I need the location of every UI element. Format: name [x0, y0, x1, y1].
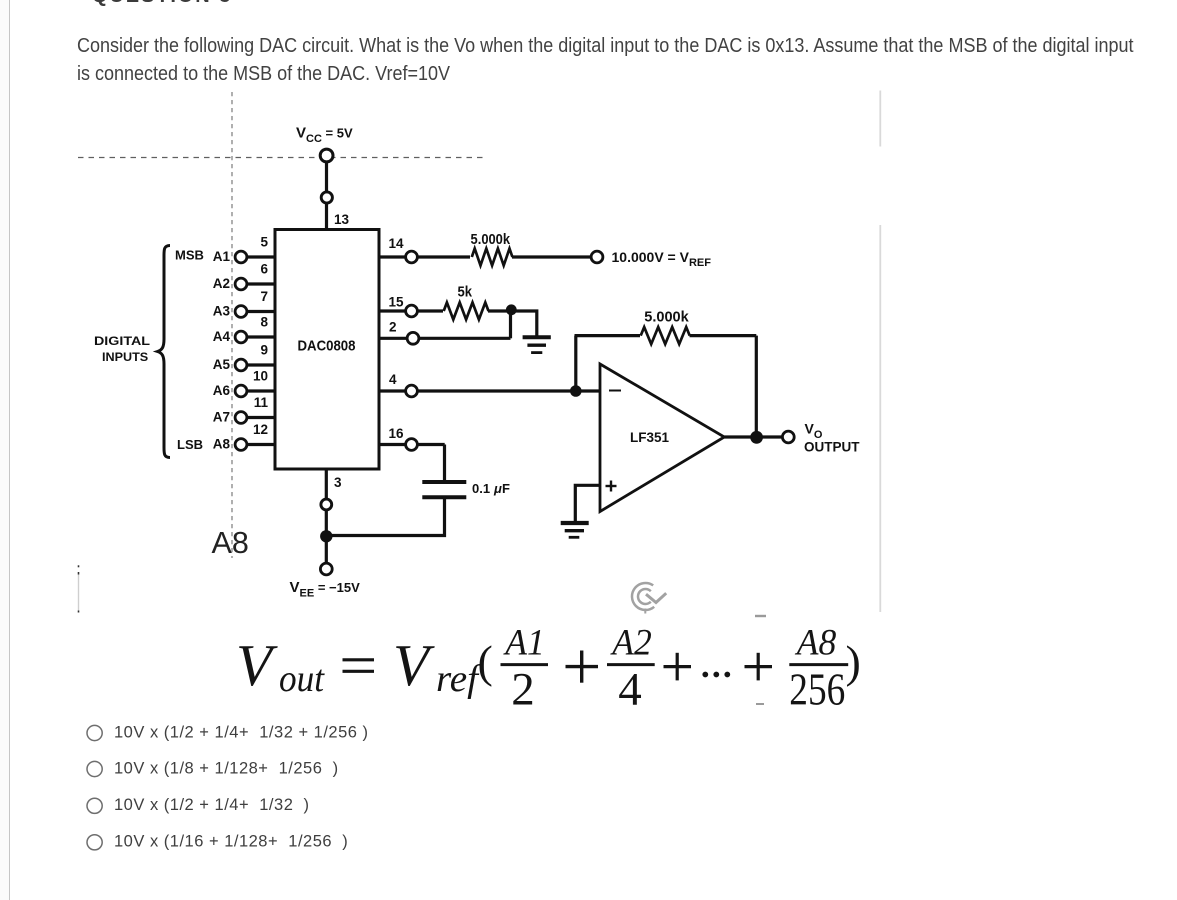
label VO OUTPUT	[804, 421, 860, 455]
pin number 16	[389, 426, 405, 441]
label MSB	[175, 248, 204, 263]
resistor R3 value 5.000k	[644, 310, 689, 326]
formula fraction A8/256	[789, 622, 848, 714]
svg-text:5.000k: 5.000k	[471, 232, 511, 248]
pin 4 row	[379, 385, 600, 397]
formula Vout	[236, 632, 325, 700]
svg-text:A7: A7	[213, 410, 230, 425]
option 4 text	[114, 833, 348, 851]
svg-text:V: V	[236, 632, 278, 698]
right border line lower segment	[879, 225, 881, 612]
feedback wire top right segment	[690, 334, 757, 337]
formula Vref	[393, 632, 483, 700]
svg-text:ref: ref	[436, 658, 483, 700]
label DIGITAL INPUTS	[94, 334, 151, 364]
svg-text:13: 13	[334, 212, 350, 227]
svg-text:LSB: LSB	[177, 437, 203, 452]
refresh icon	[632, 583, 666, 614]
pin number 12	[253, 422, 268, 437]
pin number 3	[334, 475, 342, 490]
formula equals sign	[343, 660, 375, 672]
svg-text:A8: A8	[213, 437, 231, 452]
output wire	[724, 435, 783, 438]
svg-text:A1: A1	[502, 622, 544, 663]
svg-text:VO: VO	[805, 421, 823, 442]
connector circle	[321, 192, 332, 203]
brace for digital inputs	[158, 246, 171, 458]
output terminal circle	[782, 431, 794, 443]
svg-text:9: 9	[260, 343, 268, 358]
label A4	[213, 329, 231, 344]
option 2 text	[114, 759, 339, 777]
svg-text:2: 2	[511, 664, 535, 716]
svg-text:VCC = 5V: VCC = 5V	[296, 125, 353, 146]
pin A6 row	[235, 385, 275, 397]
feedback wire down to output	[755, 336, 758, 437]
formula open paren	[478, 636, 493, 687]
wire to DAC box top	[325, 204, 328, 232]
formula plus 3	[745, 653, 773, 681]
annotation A8	[212, 526, 249, 560]
pin number 6	[260, 262, 268, 277]
svg-text:A8: A8	[212, 526, 249, 560]
resistor R2 5k	[444, 303, 489, 320]
pin number 2	[389, 320, 397, 335]
wire down to VEE junction	[325, 510, 328, 564]
svg-text:MSB: MSB	[175, 248, 204, 263]
pin number 4	[389, 372, 397, 387]
label A5	[213, 357, 231, 372]
wire pin16 down to capacitor	[443, 445, 446, 482]
small gray dash upper	[755, 615, 766, 617]
svg-text:A3: A3	[213, 304, 231, 319]
svg-text:out: out	[279, 658, 325, 700]
op-amp plus sign	[606, 481, 617, 492]
capacitor value 0.1 uF	[472, 481, 510, 496]
svg-text:A2: A2	[213, 276, 230, 291]
svg-text:11: 11	[254, 395, 269, 410]
pin number 11	[254, 395, 269, 410]
svg-text:10V x (1/2 + 1/4+ 1/32 ): 10V x (1/2 + 1/4+ 1/32 )	[114, 796, 310, 814]
formula ellipsis	[702, 672, 730, 678]
ground symbol at op-amp plus input	[561, 523, 589, 537]
svg-text:10V x (1/16 + 1/128+ 1/256 ): 10V x (1/16 + 1/128+ 1/256 )	[114, 833, 348, 851]
label A7	[213, 410, 230, 425]
Vref terminal circle	[591, 251, 603, 263]
svg-text:LF351: LF351	[630, 429, 669, 445]
formula plus 2	[664, 653, 692, 681]
svg-text:5k: 5k	[458, 284, 473, 301]
right border line upper segment	[879, 91, 881, 147]
svg-text:10: 10	[253, 369, 268, 384]
svg-text:10V x (1/8 + 1/128+ 1/256 ): 10V x (1/8 + 1/128+ 1/256 )	[114, 759, 339, 777]
wire VCC down	[325, 163, 328, 192]
pin label 13	[334, 212, 350, 227]
svg-text:15: 15	[389, 295, 405, 310]
svg-text:256: 256	[789, 665, 845, 715]
op-amp label LF351	[630, 429, 669, 445]
non-inverting input wire	[575, 485, 600, 521]
resistor R3 feedback 5.000k	[641, 327, 690, 344]
svg-text:4: 4	[618, 664, 642, 716]
pin A5 row	[235, 359, 275, 371]
label A8	[213, 437, 231, 452]
left page border	[0, 0, 9, 900]
pin A8 row	[235, 439, 275, 451]
pin A2 row	[235, 278, 275, 290]
pin A3 row	[235, 306, 275, 318]
pin A7 row	[235, 412, 275, 424]
svg-text:2: 2	[389, 320, 397, 335]
pin A1 row	[235, 251, 275, 263]
node junction at op-amp inverting input	[570, 385, 582, 397]
pin number 10	[253, 369, 268, 384]
VEE terminal circle	[320, 563, 332, 575]
radio button 4	[87, 835, 102, 850]
svg-text:(: (	[478, 636, 493, 687]
resistor R1 value 5.000k	[471, 232, 511, 248]
wire junction down to pin2 net	[509, 311, 512, 338]
svg-text:16: 16	[389, 426, 405, 441]
op-amp U1 LF351	[600, 364, 724, 512]
pin number 14	[389, 236, 405, 251]
svg-text:V: V	[393, 632, 435, 698]
svg-text:A8: A8	[794, 622, 837, 663]
svg-text:A5: A5	[213, 357, 231, 372]
DAC0808 label	[298, 338, 356, 355]
svg-text:DAC0808: DAC0808	[298, 338, 356, 355]
formula close paren	[846, 636, 861, 687]
pin 3 wire from box bottom	[325, 469, 328, 500]
svg-text:5.000k: 5.000k	[644, 310, 689, 326]
radio button 3	[87, 798, 102, 813]
svg-text:A4: A4	[213, 329, 231, 344]
svg-text:5: 5	[260, 235, 268, 250]
heading QUESTION 8 (cut off at top)	[92, 0, 232, 8]
VCC terminal circle	[320, 149, 333, 162]
svg-text:OUTPUT: OUTPUT	[804, 439, 860, 454]
formula Vout = Vref(A1/2 + A2/4 + ... + A8/256)	[236, 622, 861, 715]
pin 3 connector circle	[321, 499, 332, 510]
pin A4 row	[235, 331, 275, 343]
svg-text:10V x (1/2 + 1/4+ 1/32 + 1/25: 10V x (1/2 + 1/4+ 1/32 + 1/256 )	[114, 723, 369, 741]
svg-text:7: 7	[260, 289, 268, 304]
svg-text:0.1: 0.1	[472, 481, 490, 496]
svg-text:6: 6	[260, 262, 268, 277]
svg-text:3: 3	[334, 475, 342, 490]
label LSB	[177, 437, 203, 452]
output junction dot	[750, 431, 763, 444]
feedback wire top left segment	[575, 334, 641, 337]
formula plus 1	[566, 651, 599, 683]
svg-text:DIGITAL: DIGITAL	[94, 334, 151, 348]
wire to junction	[488, 309, 511, 312]
label A1	[213, 249, 231, 264]
svg-text:INPUTS: INPUTS	[102, 350, 148, 364]
pin 2 row	[379, 332, 511, 344]
svg-text:10.000V = VREF: 10.000V = VREF	[612, 249, 712, 269]
label A6	[213, 383, 231, 398]
pin number 9	[260, 343, 268, 358]
pin 15 row	[379, 305, 443, 317]
pin 14 row	[379, 251, 470, 263]
dashed horizontal construction line	[78, 157, 484, 159]
svg-text:8: 8	[260, 315, 268, 330]
svg-text:μ: μ	[493, 481, 502, 496]
option 1 text	[114, 723, 369, 741]
ground symbol near pin 15	[523, 337, 551, 352]
wire junction to ground stem	[511, 311, 537, 338]
text cursor artifact	[78, 565, 80, 612]
op-amp minus sign	[609, 390, 621, 392]
pin 16 row	[379, 439, 445, 451]
svg-text:14: 14	[389, 236, 405, 251]
junction dot	[506, 304, 517, 315]
resistor R1 5.000k	[472, 249, 513, 266]
svg-text:4: 4	[389, 372, 397, 387]
svg-text:): )	[846, 636, 861, 687]
wire to Vref terminal	[512, 255, 592, 258]
formula fraction A1/2	[501, 622, 549, 715]
svg-text:VEE = −15V: VEE = −15V	[290, 579, 361, 600]
feedback wire up	[574, 336, 577, 391]
radio button 1	[87, 725, 102, 740]
svg-text:A1: A1	[213, 249, 231, 264]
resistor R2 value 5k	[458, 284, 473, 301]
label VEE = -15V	[290, 579, 361, 600]
svg-text:A2: A2	[609, 622, 651, 663]
pin number 5	[260, 235, 268, 250]
capacitor C1	[422, 482, 466, 497]
VCC label	[296, 125, 353, 146]
wire capacitor down and left to VEE node	[326, 496, 444, 536]
option 3 text	[114, 796, 310, 814]
formula fraction A2/4	[607, 622, 655, 715]
label A3	[213, 304, 231, 319]
pin number 15	[389, 295, 405, 310]
question paragraph	[77, 32, 1134, 89]
DAC0808 box	[275, 230, 379, 470]
pin number 7	[260, 289, 268, 304]
svg-text:12: 12	[253, 422, 268, 437]
radio button 2	[87, 761, 102, 776]
answer options	[87, 723, 369, 850]
label A2	[213, 276, 230, 291]
small gray dash lower	[756, 703, 764, 705]
dashed vertical construction line	[231, 92, 233, 558]
label 10.000V = VREF	[612, 249, 712, 269]
svg-text:A6: A6	[213, 383, 231, 398]
svg-text:F: F	[502, 481, 510, 496]
VEE junction dot	[320, 530, 332, 542]
pin number 8	[260, 315, 268, 330]
